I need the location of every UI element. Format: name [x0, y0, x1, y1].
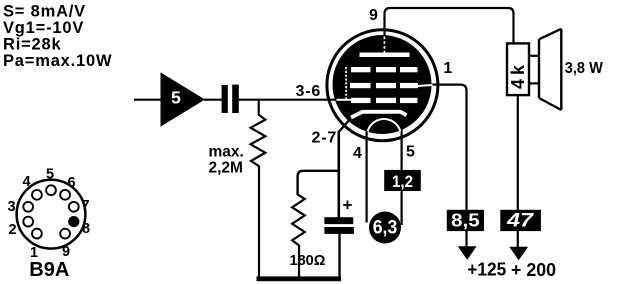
wire: cathode diagonal lead (pins 2-7)	[339, 118, 352, 132]
op-amp U1: driver stage triangle "5"	[161, 72, 206, 126]
tube V1: cathode chevron (white)	[351, 112, 407, 118]
B9A pin 8 (marked, filled)	[68, 216, 79, 227]
wire: transformer primary down to +200	[517, 96, 519, 249]
current label 47 (black box)	[500, 210, 541, 231]
B9A base outline	[17, 180, 86, 249]
svg-text:+ 200: + 200	[511, 260, 556, 280]
svg-text:180Ω: 180Ω	[290, 253, 326, 269]
svg-text:4: 4	[22, 174, 30, 190]
svg-text:5: 5	[406, 143, 415, 160]
tube V1 electrodes: grid bars row 1	[351, 67, 371, 72]
svg-text:1: 1	[443, 60, 452, 77]
tube V1: heater arc (white)	[368, 119, 401, 132]
B9A pin 1	[32, 229, 42, 239]
resistor R2 180 ohm (cathode bias)	[292, 195, 305, 246]
heater supply label 6,3	[369, 212, 401, 244]
svg-text:3,8 W: 3,8 W	[565, 60, 603, 77]
B9A pin 3	[23, 202, 33, 212]
svg-text:+: +	[343, 196, 353, 215]
svg-text:9: 9	[369, 7, 378, 24]
supply arrow +200	[509, 247, 528, 260]
tube V1 electrodes: grid bars row 2	[350, 83, 371, 88]
tube V1: anode lead dashes inside (white)	[383, 37, 385, 53]
wire: C1 to control grid (pins 3-6)	[239, 99, 337, 101]
B9A pin 2	[23, 217, 33, 227]
supply arrow +125	[458, 246, 477, 259]
resistor R1 max. 2,2M (grid leak)	[251, 115, 266, 167]
wire: anode lead pin 9 to output transformer	[385, 8, 514, 44]
tube V1: internal electrode assembly (black disc)	[333, 35, 432, 134]
wire: C2 bottom to ground bus	[338, 234, 340, 279]
wire: heater pin 5 lead (upper)	[401, 129, 403, 171]
wire: branch from cathode to R2	[298, 171, 339, 195]
svg-text:4: 4	[353, 145, 362, 162]
wire: triangle output to C1	[204, 99, 222, 101]
svg-text:4k: 4k	[508, 61, 528, 89]
svg-text:B9A: B9A	[29, 259, 69, 281]
B9A pin 7	[69, 202, 79, 212]
svg-text:47: 47	[506, 211, 535, 232]
tube V1: screen grid stub to pin 1 (white)	[418, 85, 433, 86]
tube V1 electrodes: grid bars row 3	[351, 98, 371, 103]
svg-text:S= 8mA/V: S= 8mA/V	[3, 3, 86, 21]
svg-text:2-7: 2-7	[312, 129, 338, 146]
svg-text:1,2: 1,2	[392, 172, 413, 191]
svg-text:8,5: 8,5	[451, 211, 480, 231]
wire: heater pin 5 lead (lower)	[401, 190, 403, 225]
tube V1 electrodes: anode top bar (white)	[360, 53, 410, 58]
svg-text:8: 8	[82, 221, 90, 237]
svg-text:2,2M: 2,2M	[209, 160, 243, 177]
tube V1: glass envelope	[327, 30, 438, 141]
transformer T1 primary 4k box	[507, 43, 529, 95]
svg-text:Pa=max.10W: Pa=max.10W	[3, 52, 112, 70]
svg-text:max.: max.	[209, 143, 244, 160]
wire: R1 bottom to ground bus	[258, 166, 260, 279]
B9A pin 9	[60, 229, 70, 239]
B9A pin 4	[32, 190, 42, 200]
loudspeaker LS1	[529, 55, 539, 57]
ground bus	[257, 276, 342, 281]
svg-text:+125: +125	[467, 260, 506, 280]
svg-text:6: 6	[67, 175, 75, 191]
wire: heater pin 4 lead	[366, 129, 368, 223]
svg-text:9: 9	[62, 244, 70, 260]
wire: screen grid pin 1 lead	[431, 85, 467, 247]
svg-text:2: 2	[8, 222, 16, 238]
wire: cathode vertical lead down to C2	[337, 131, 340, 219]
wire: junction drop to R1	[258, 100, 260, 116]
tube V1: grid entry stub (white)	[337, 99, 352, 101]
B9A pin number labels	[7, 166, 90, 261]
svg-text:3: 3	[7, 199, 15, 215]
value label max. 2,2M	[209, 143, 244, 176]
capacitor C1 (coupling)	[222, 85, 228, 113]
current label 8,5 (black box)	[447, 210, 484, 231]
svg-text:3-6: 3-6	[296, 83, 322, 100]
wire: input lead	[134, 99, 161, 101]
current label 1,2 (black box)	[384, 170, 421, 191]
svg-text:5: 5	[46, 166, 54, 182]
svg-text:Ri=28k: Ri=28k	[3, 35, 61, 53]
wire: R2 bottom to ground bus	[298, 245, 300, 279]
tube V1: grid side-rod connector (white)	[345, 67, 347, 101]
svg-text:7: 7	[81, 198, 89, 214]
svg-text:Vg1=-10V: Vg1=-10V	[3, 19, 84, 37]
B9A pin 6	[60, 190, 70, 200]
B9A pin 5	[46, 185, 56, 195]
svg-text:5: 5	[171, 88, 181, 108]
capacitor C2 electrolytic plates	[324, 217, 353, 224]
svg-text:6,3: 6,3	[373, 218, 398, 239]
value label: tube characteristics text block	[3, 3, 112, 70]
